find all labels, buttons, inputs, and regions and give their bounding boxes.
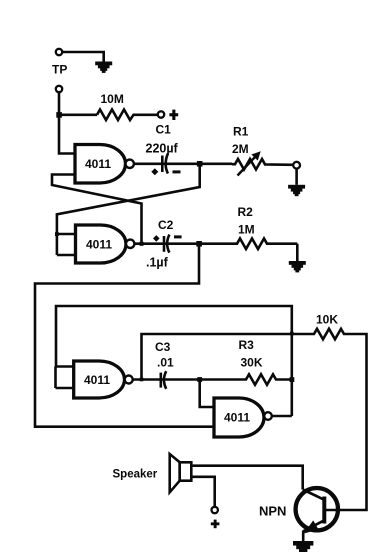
svg-text:4011: 4011 [86, 238, 112, 252]
svg-text:10M: 10M [101, 92, 124, 106]
svg-text:.1µf: .1µf [146, 256, 169, 270]
svg-text:4011: 4011 [84, 373, 110, 387]
svg-text:2M: 2M [232, 142, 249, 156]
svg-text:R3: R3 [239, 338, 255, 352]
svg-text:TP: TP [52, 63, 67, 77]
svg-text:4011: 4011 [224, 411, 250, 425]
svg-text:.01: .01 [157, 356, 174, 370]
svg-text:30K: 30K [241, 356, 263, 370]
svg-text:220µf: 220µf [146, 142, 179, 156]
svg-text:R1: R1 [233, 125, 249, 139]
svg-text:10K: 10K [316, 313, 338, 327]
svg-text:Speaker: Speaker [113, 469, 158, 481]
svg-text:R2: R2 [238, 205, 254, 219]
svg-text:C2: C2 [158, 218, 174, 232]
svg-text:1M: 1M [238, 223, 255, 237]
svg-text:4011: 4011 [85, 157, 111, 171]
svg-text:NPN: NPN [259, 504, 286, 519]
svg-text:C3: C3 [155, 340, 171, 354]
svg-text:C1: C1 [156, 123, 172, 137]
